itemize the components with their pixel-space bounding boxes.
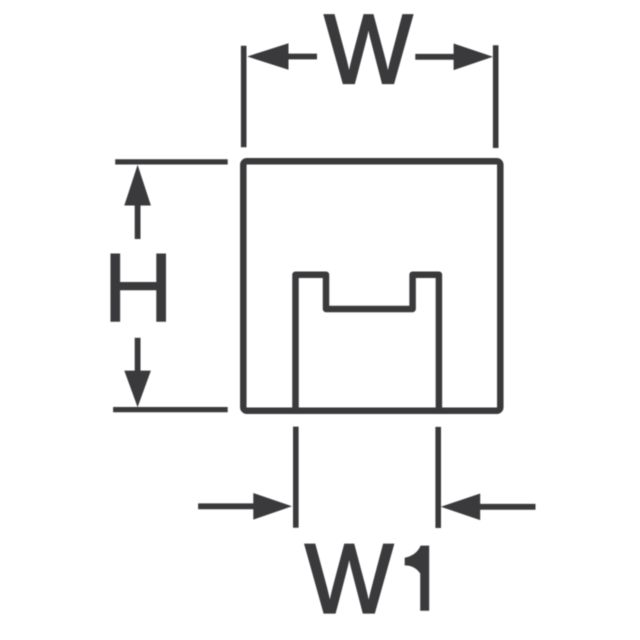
extension line W left [241, 46, 247, 148]
svg-text:W: W [324, 0, 413, 104]
arrowhead W right [454, 44, 493, 71]
arrowhead W left [247, 43, 288, 70]
extension line W1 left [293, 427, 299, 528]
terminal tab outline [296, 275, 439, 411]
label W1 (digit 1, custom no-serif glyph) [405, 546, 430, 611]
dimension line W left stem [288, 54, 318, 60]
arrowhead H down [124, 371, 151, 408]
arrowhead H up [124, 165, 151, 206]
extension line H top [115, 159, 228, 164]
dimension line W1 right stem [479, 504, 535, 510]
extension line W1 right [435, 427, 441, 528]
extension line H bottom [113, 407, 228, 412]
svg-text:W: W [305, 524, 394, 634]
component body outline [243, 161, 500, 410]
dimension line W right stem [415, 54, 454, 60]
extension line W right [493, 45, 499, 148]
svg-text:H: H [103, 232, 174, 342]
dimension line W1 left stem [198, 503, 254, 509]
arrowhead W1 left [253, 493, 292, 520]
dimension line H bottom stem [135, 338, 141, 372]
arrowhead W1 right [441, 494, 480, 521]
dimension line H top stem [135, 205, 141, 240]
